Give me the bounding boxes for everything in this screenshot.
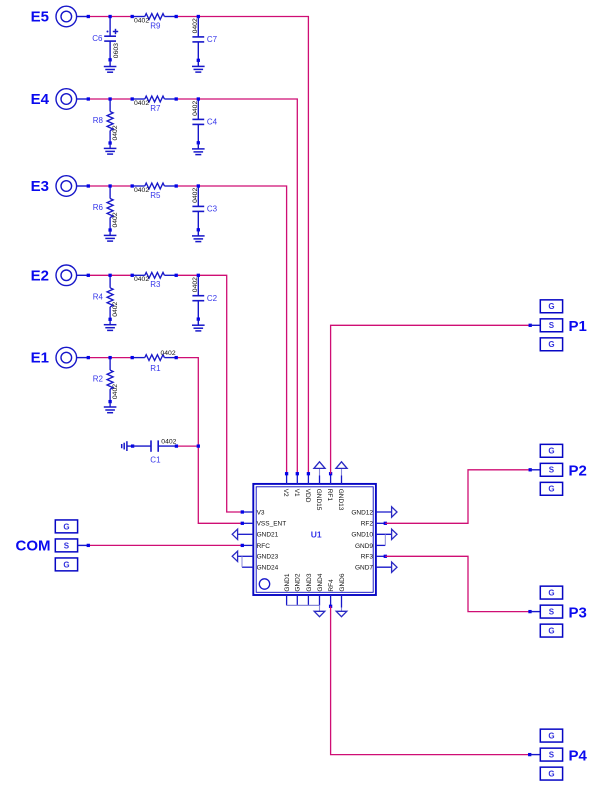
svg-text:U1: U1 xyxy=(311,529,322,539)
svg-text:0402: 0402 xyxy=(112,212,119,227)
op-amp U1 xyxy=(253,484,376,595)
svg-text:GND10: GND10 xyxy=(351,532,373,539)
svg-text:G: G xyxy=(548,627,554,636)
pin GND21 xyxy=(232,529,278,539)
svg-text:R4: R4 xyxy=(93,292,104,301)
svg-text:0402: 0402 xyxy=(134,187,149,194)
svg-text:E3: E3 xyxy=(31,178,49,195)
connector E4 xyxy=(31,89,89,110)
svg-text:C3: C3 xyxy=(207,205,218,214)
resistor R2 xyxy=(93,358,119,402)
svg-text:GND2: GND2 xyxy=(295,573,302,591)
wire xyxy=(88,185,132,187)
svg-text:G: G xyxy=(548,302,554,311)
capacitor C4 xyxy=(192,99,217,143)
svg-text:GND4: GND4 xyxy=(317,573,324,591)
pin V1 xyxy=(293,472,300,497)
capacitor C6 xyxy=(92,17,120,60)
wire xyxy=(176,358,242,524)
svg-text:GND12: GND12 xyxy=(351,509,373,516)
svg-text:G: G xyxy=(548,340,554,349)
svg-text:GND6: GND6 xyxy=(339,573,346,591)
pin GND12 xyxy=(351,507,397,517)
wire xyxy=(88,357,132,359)
connector P1 xyxy=(540,300,587,351)
ground xyxy=(122,441,133,451)
wire RF3 to P3 xyxy=(385,556,540,613)
svg-text:0402: 0402 xyxy=(192,18,199,33)
svg-text:R9: R9 xyxy=(150,21,161,30)
svg-text:E4: E4 xyxy=(31,91,50,108)
svg-text:RF2: RF2 xyxy=(361,521,374,528)
svg-text:0402: 0402 xyxy=(161,350,176,357)
svg-text:P1: P1 xyxy=(569,318,587,335)
svg-text:GND23: GND23 xyxy=(257,554,279,561)
svg-text:P3: P3 xyxy=(569,604,587,621)
svg-text:P2: P2 xyxy=(569,463,587,480)
connector P2 xyxy=(540,444,587,495)
ground xyxy=(192,59,205,72)
ground xyxy=(104,318,117,331)
wire RF1 to P1 xyxy=(331,324,541,474)
svg-text:VDD: VDD xyxy=(304,489,311,503)
svg-text:G: G xyxy=(548,447,554,456)
wire xyxy=(176,17,308,474)
ground xyxy=(192,228,205,241)
ground xyxy=(104,141,117,154)
capacitor C3 xyxy=(192,186,217,230)
wire xyxy=(176,99,297,474)
svg-text:0603: 0603 xyxy=(113,43,120,58)
junction xyxy=(87,274,200,277)
capacitor C7 xyxy=(192,17,217,61)
svg-text:RF1: RF1 xyxy=(326,489,333,502)
svg-text:E1: E1 xyxy=(31,350,49,367)
connector E5 xyxy=(31,6,89,27)
junction xyxy=(87,356,178,359)
pin RF1 xyxy=(326,472,333,501)
ground xyxy=(104,228,117,241)
resistor R5 xyxy=(132,183,176,200)
pin GND15 xyxy=(314,462,325,511)
svg-text:GND21: GND21 xyxy=(257,532,279,539)
connector P3 xyxy=(540,586,587,637)
svg-text:G: G xyxy=(63,522,69,531)
pin GND6 xyxy=(336,573,347,617)
svg-text:0402: 0402 xyxy=(192,101,199,116)
svg-text:C6: C6 xyxy=(92,34,103,43)
svg-text:0402: 0402 xyxy=(134,276,149,283)
wire xyxy=(176,275,242,512)
pin V2 xyxy=(282,472,289,497)
pin GND13 xyxy=(336,462,347,511)
wire xyxy=(88,274,132,276)
ground xyxy=(104,400,117,413)
svg-text:C2: C2 xyxy=(207,294,218,303)
svg-text:RF4: RF4 xyxy=(328,579,335,592)
connector E3 xyxy=(31,176,89,197)
svg-text:RF3: RF3 xyxy=(361,554,374,561)
svg-text:G: G xyxy=(548,589,554,598)
svg-text:GND24: GND24 xyxy=(257,565,279,572)
wire xyxy=(88,16,132,18)
svg-text:S: S xyxy=(549,466,555,475)
junction xyxy=(87,97,200,100)
svg-text:0402: 0402 xyxy=(192,188,199,203)
svg-text:0402: 0402 xyxy=(134,100,149,107)
pin RF2 xyxy=(361,521,387,528)
svg-text:S: S xyxy=(64,541,70,550)
svg-text:E5: E5 xyxy=(31,9,49,26)
svg-text:0402: 0402 xyxy=(192,277,199,292)
pin GND9 xyxy=(355,534,385,550)
svg-text:V3: V3 xyxy=(257,509,265,516)
wire GND1-GND4 bus xyxy=(287,605,320,611)
connector E2 xyxy=(31,265,89,286)
svg-text:VSS_ENT: VSS_ENT xyxy=(257,521,287,528)
svg-text:C7: C7 xyxy=(207,35,218,44)
wire xyxy=(88,98,132,100)
ground xyxy=(192,141,205,154)
pin V3 xyxy=(241,509,265,516)
resistor R7 xyxy=(132,96,176,113)
resistor R4 xyxy=(93,275,119,319)
pin GND1 xyxy=(284,573,291,605)
svg-text:V2: V2 xyxy=(282,489,289,497)
svg-text:0402: 0402 xyxy=(112,125,119,140)
connector P4 xyxy=(540,729,587,780)
ground xyxy=(104,58,117,72)
svg-text:R3: R3 xyxy=(150,280,161,289)
resistor R8 xyxy=(93,99,119,143)
wire RF2 to P2 xyxy=(385,468,540,523)
wire xyxy=(176,186,286,474)
svg-text:V1: V1 xyxy=(293,489,300,497)
pin GND4 xyxy=(317,573,324,605)
capacitor C2 xyxy=(192,275,217,319)
wire xyxy=(175,444,200,447)
capacitor C1 xyxy=(131,439,177,465)
pin GND10 xyxy=(351,529,397,539)
resistor R3 xyxy=(132,272,176,289)
svg-text:R2: R2 xyxy=(93,375,104,384)
ground xyxy=(314,611,325,616)
svg-text:R6: R6 xyxy=(93,203,104,212)
svg-text:0402: 0402 xyxy=(161,439,176,446)
pin VDD xyxy=(304,472,311,503)
ground xyxy=(192,317,205,330)
svg-text:P4: P4 xyxy=(569,747,588,764)
connector E1 xyxy=(31,347,89,368)
svg-text:R8: R8 xyxy=(93,116,104,125)
svg-text:0402: 0402 xyxy=(112,301,119,316)
connector COM xyxy=(16,520,89,571)
wire COM to RFC xyxy=(87,544,243,547)
svg-text:C4: C4 xyxy=(207,118,218,127)
pin GND24 xyxy=(242,556,279,571)
svg-text:GND3: GND3 xyxy=(306,573,313,591)
svg-text:R1: R1 xyxy=(150,364,161,373)
svg-text:0402: 0402 xyxy=(134,17,149,24)
svg-text:S: S xyxy=(549,608,555,617)
svg-text:R7: R7 xyxy=(150,104,161,113)
svg-text:G: G xyxy=(63,560,69,569)
pin RF3 xyxy=(361,554,387,561)
svg-text:GND9: GND9 xyxy=(355,543,373,550)
junction xyxy=(87,184,200,187)
svg-text:GND7: GND7 xyxy=(355,565,373,572)
svg-text:E2: E2 xyxy=(31,267,49,284)
pin GND23 xyxy=(232,551,278,561)
pin RF4 xyxy=(328,579,335,608)
svg-text:G: G xyxy=(548,770,554,779)
resistor R9 xyxy=(132,14,176,31)
svg-text:COM: COM xyxy=(16,537,51,554)
pin VSS_ENT xyxy=(241,521,287,528)
resistor R1 xyxy=(132,350,176,373)
svg-text:G: G xyxy=(548,485,554,494)
junction xyxy=(87,15,200,18)
resistor R6 xyxy=(93,186,119,230)
svg-text:RFC: RFC xyxy=(257,543,271,550)
pin GND2 xyxy=(295,573,302,605)
svg-text:S: S xyxy=(549,751,555,760)
svg-text:R5: R5 xyxy=(150,191,161,200)
wire RF4 to P4 xyxy=(331,606,541,756)
svg-text:C1: C1 xyxy=(150,455,161,464)
svg-text:GND13: GND13 xyxy=(337,489,344,511)
svg-text:S: S xyxy=(549,321,555,330)
svg-text:GND15: GND15 xyxy=(315,489,322,511)
pin RFC xyxy=(241,543,271,550)
svg-text:G: G xyxy=(548,732,554,741)
pin GND7 xyxy=(355,562,397,572)
svg-text:GND1: GND1 xyxy=(284,573,291,591)
svg-text:0402: 0402 xyxy=(112,384,119,399)
pin GND3 xyxy=(306,573,313,605)
